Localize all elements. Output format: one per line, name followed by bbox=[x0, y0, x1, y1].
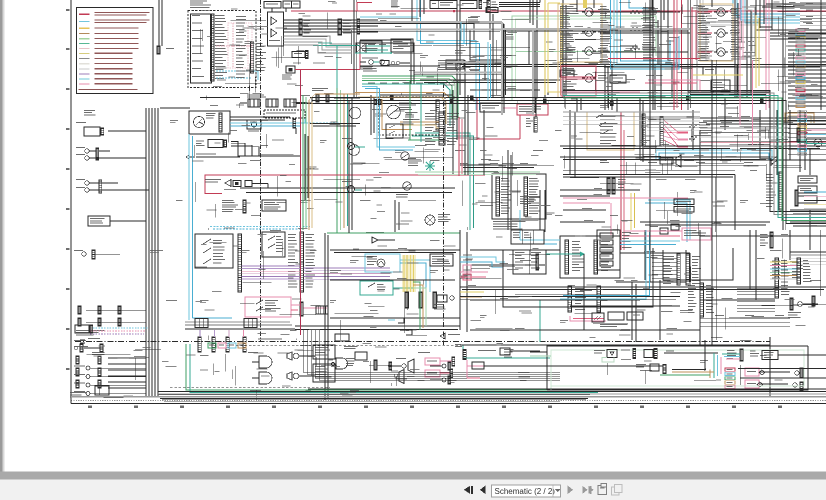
horn box H1 bbox=[446, 60, 464, 69]
left long verts bbox=[146, 108, 158, 397]
blower resistor R1 bbox=[630, 8, 658, 14]
harness divider line A bbox=[261, 0, 357, 341]
bl pink conn cluster bbox=[455, 344, 484, 378]
connector J4 strip bbox=[338, 19, 352, 35]
enclosure pale green inner bbox=[551, 350, 804, 390]
teal junction dot bbox=[355, 52, 392, 54]
red pair x674 bbox=[674, 0, 677, 110]
gauge G2 bbox=[349, 105, 401, 155]
red horiz y58 bbox=[608, 58, 700, 60]
fuse holder FH1 bbox=[362, 58, 410, 66]
sender labels bbox=[363, 66, 377, 71]
conn strip Y2 bbox=[419, 292, 422, 308]
switch box S3 bbox=[460, 1, 477, 9]
connector J8 strip bbox=[439, 112, 445, 145]
left margin component bbox=[76, 122, 146, 136]
wire loop green bbox=[327, 76, 458, 233]
tan vert pair x309 bbox=[309, 100, 312, 230]
wire horn bbox=[464, 64, 485, 80]
red vert x300 bbox=[300, 70, 302, 335]
wire loop tan bbox=[344, 81, 452, 229]
speaker SP1 bbox=[287, 352, 315, 360]
wire black pair y175 bbox=[563, 175, 735, 231]
tail lamp labels mid bbox=[504, 349, 513, 358]
JB1 caption below bbox=[493, 221, 526, 230]
dome switches bbox=[770, 156, 778, 165]
verticals 230-345 right bbox=[584, 230, 820, 345]
encl long horizontals bbox=[738, 365, 826, 385]
wires into x677 bbox=[652, 258, 677, 282]
wire cyan from key bbox=[230, 117, 305, 126]
fuse F1 bbox=[292, 51, 308, 59]
fusible link cluster bbox=[312, 88, 360, 102]
green vert pair x303 bbox=[303, 95, 306, 230]
bus pair y64 extend bbox=[618, 65, 737, 98]
wires from J6 right bbox=[499, 0, 540, 7]
fuel sender FS1 bbox=[205, 179, 252, 187]
connector stack right edge 2 bbox=[788, 111, 826, 156]
tan pair top gauge area bbox=[370, 96, 446, 98]
key switch connector bbox=[219, 113, 222, 132]
alternator gray wires bbox=[284, 36, 353, 47]
gauge labels mid bbox=[403, 119, 413, 125]
long horiz y287 bbox=[460, 287, 826, 290]
wire red vert x621 bbox=[621, 112, 624, 250]
radio box 2 bbox=[313, 364, 335, 382]
left cluster box bbox=[95, 386, 109, 395]
dome conn strip bbox=[766, 172, 782, 210]
wire pink dashed 2 bbox=[216, 23, 252, 68]
cyan pair x488 bbox=[488, 42, 491, 100]
scattered wire labels bbox=[150, 2, 826, 393]
enclosure big bottom bbox=[547, 346, 808, 390]
center mid labels bbox=[455, 150, 543, 169]
blower resistor R2 bbox=[630, 25, 653, 31]
black vert x712 extend bbox=[712, 60, 716, 345]
fuse box F2 bbox=[486, 8, 498, 13]
box P3 bbox=[88, 216, 110, 226]
relay box mid bbox=[513, 250, 546, 274]
red loop bottom seg bbox=[205, 193, 222, 195]
yellow horiz y75 bbox=[693, 74, 743, 76]
left margin mid connector bbox=[74, 250, 120, 259]
long horiz y306 bbox=[570, 305, 680, 307]
junction box JB2 bbox=[560, 236, 620, 278]
routing mesh vertical wires bbox=[272, 0, 821, 342]
JB1 text right bbox=[529, 178, 540, 214]
enclosure box E2 bbox=[663, 248, 733, 280]
JB1 caption bbox=[520, 196, 540, 204]
black pair y326 right bbox=[295, 326, 460, 330]
toolbar next arrow (disabled) bbox=[568, 485, 574, 494]
gauge G5 bbox=[814, 139, 822, 147]
gauge cluster connector bbox=[436, 100, 439, 130]
bus darken bbox=[296, 98, 826, 288]
wire cyan panel bbox=[216, 71, 258, 80]
wire loop light-green bbox=[341, 79, 456, 231]
blower resistor R3 bbox=[630, 44, 655, 50]
wire red relay loop bbox=[692, 7, 696, 90]
instrument panel inner box bbox=[191, 14, 212, 83]
wire pink vert x766 bbox=[766, 0, 769, 110]
horn D2b bbox=[394, 370, 404, 384]
wire yellow vert x631 bbox=[631, 193, 635, 230]
toolbar prev arrow bbox=[480, 485, 486, 494]
br small parts bbox=[793, 368, 803, 391]
wire pink horn bbox=[560, 91, 640, 93]
sender circles right bbox=[342, 138, 365, 193]
gray wires right lower bbox=[790, 255, 826, 265]
ammeter shunt A1 bbox=[282, 66, 295, 80]
panel extra text bbox=[236, 16, 247, 78]
wire pink fuel bbox=[624, 231, 682, 236]
wire black bottom right pair bbox=[463, 337, 770, 345]
harness outline pale green bbox=[512, 16, 656, 100]
ts bottom conn strips bbox=[198, 337, 246, 352]
instrument panel item labels bbox=[192, 15, 204, 77]
JB2 strip A bbox=[565, 240, 568, 274]
wiper connector bbox=[660, 117, 663, 146]
alternator staircase extra bbox=[284, 42, 353, 53]
conn strip TS-B bbox=[300, 232, 303, 292]
mid right verticals bbox=[770, 110, 810, 175]
solenoid Y1 bbox=[196, 140, 227, 148]
breaker CB1 bbox=[480, 103, 502, 112]
wire black vert x503 bbox=[503, 23, 506, 98]
wire teal lower right bbox=[539, 300, 541, 342]
main bus line 1 bbox=[310, 97, 770, 99]
encl label stack bbox=[725, 368, 735, 388]
wire teal long bbox=[313, 45, 360, 47]
wire cyan right mid bbox=[645, 200, 690, 242]
top right corner rows bbox=[800, 2, 826, 25]
turn signal switch box bbox=[587, 112, 634, 150]
left cluster rows2 bbox=[74, 366, 146, 396]
relay K7 bbox=[700, 48, 738, 56]
wire red top junction bbox=[453, 10, 455, 12]
trunk bends bbox=[529, 14, 530, 65]
gauge cluster dashed box bbox=[379, 97, 445, 135]
battery BAT1 group bbox=[248, 99, 296, 107]
battery labels bbox=[247, 95, 266, 98]
connector P1 pair bbox=[76, 147, 112, 160]
right bundle feed bbox=[563, 91, 640, 101]
encl colored verts bbox=[710, 353, 721, 378]
wire cyan left pair bbox=[189, 134, 193, 320]
mid horizontals extra bbox=[563, 160, 770, 170]
right edge conn mid bbox=[760, 232, 773, 248]
tss gray wires bbox=[647, 118, 700, 131]
wire tan to J8 bbox=[400, 122, 439, 128]
right edge stubs mid bbox=[804, 130, 826, 209]
labels right lower bbox=[792, 262, 803, 278]
conn strip R2 bbox=[775, 258, 790, 298]
connector J8 labels R bbox=[447, 113, 459, 145]
junction box JB1 bbox=[492, 174, 546, 219]
yellow entry relay1 bbox=[583, 0, 587, 8]
wire pink y203 bbox=[563, 203, 611, 235]
wire red loop fuel bbox=[205, 175, 485, 194]
wire green y233 bbox=[327, 232, 460, 234]
cyan pair x377 bbox=[362, 87, 415, 151]
lamp box B1 bbox=[264, 2, 281, 9]
fan motor M2 bbox=[425, 161, 435, 171]
inline conn small 1 bbox=[195, 319, 208, 328]
conn pair x677 bbox=[663, 254, 701, 285]
connector J1 wire labels bbox=[215, 15, 228, 79]
flasher sw box bbox=[262, 232, 285, 257]
bl labels bbox=[70, 392, 87, 398]
purple bundle left bbox=[242, 266, 301, 279]
left long vert feeds bbox=[110, 158, 149, 221]
green tan corners bbox=[413, 282, 426, 330]
wire teal arrow bbox=[546, 252, 585, 257]
label box LB1 bbox=[674, 199, 694, 205]
center top labels bbox=[455, 17, 514, 53]
starter M1 bbox=[247, 120, 261, 132]
cyan stub pair bbox=[461, 22, 464, 44]
small syms right of cab bbox=[388, 318, 412, 335]
wire cyan dashed headlight bbox=[210, 227, 310, 230]
hazard conn bbox=[300, 302, 303, 316]
gray trunk pair 2 bbox=[357, 29, 690, 115]
draft parts right bbox=[434, 295, 454, 310]
tan box gauge bbox=[382, 99, 412, 130]
fuel tank boxes bbox=[650, 224, 679, 234]
hazard cluster pink box bbox=[245, 297, 291, 317]
bl cluster rows bbox=[76, 356, 101, 388]
bl wires to bus bbox=[108, 358, 146, 388]
wire red cb bbox=[476, 98, 478, 141]
svg-text:Schematic (2 / 2): Schematic (2 / 2) bbox=[495, 487, 556, 496]
wiper motor fan wires bbox=[664, 120, 689, 147]
wire teal vert x337 bbox=[336, 46, 338, 89]
wire teal to J8 bbox=[412, 133, 439, 136]
lamp box B2 bbox=[283, 1, 300, 8]
vert x770 extend bbox=[769, 337, 771, 397]
toolbar first-page button bbox=[464, 486, 470, 494]
connector J3 strip bbox=[299, 19, 311, 35]
relay area boxes bbox=[558, 4, 733, 62]
horn relay K4 bbox=[566, 74, 608, 82]
track pump label bbox=[84, 110, 96, 115]
cyan vert pair x646 bbox=[560, 230, 650, 299]
bus pair y90 bbox=[563, 91, 770, 94]
toolbar last-page button (disabled) bbox=[583, 486, 588, 494]
wire pink y108 bbox=[502, 107, 517, 109]
wire green loop bottom bbox=[415, 172, 540, 175]
bus bottom lines bbox=[155, 397, 590, 399]
conn strip R1 bbox=[688, 283, 714, 317]
labels v3 bbox=[563, 4, 801, 104]
wire teal label bbox=[318, 43, 332, 44]
wire gray long y188 bbox=[240, 187, 360, 189]
wire teal L down bbox=[446, 133, 474, 230]
bus junction dots bbox=[453, 97, 689, 105]
wire y366 long bbox=[484, 365, 663, 367]
small conn pair x376 bbox=[374, 100, 381, 105]
label box LB2 bbox=[674, 207, 694, 213]
TS-B labels bbox=[288, 234, 315, 288]
left small symbols 335 bbox=[74, 338, 100, 347]
gray wire grid right mid bbox=[700, 126, 790, 146]
connector J1 strip bbox=[211, 14, 214, 81]
encl junction bundle bbox=[704, 340, 706, 371]
speaker D2 bbox=[252, 372, 272, 384]
tiny colored boxes row bbox=[208, 343, 246, 348]
green branch down bbox=[410, 81, 421, 143]
battery cables bbox=[240, 98, 312, 104]
sender symbols bbox=[360, 60, 384, 65]
connector J9 bbox=[526, 117, 537, 132]
encl wires to conn bbox=[722, 354, 740, 359]
bottom rows full bbox=[71, 389, 826, 401]
fuel tank pink box bbox=[682, 228, 711, 240]
fan motor M4 bbox=[425, 214, 451, 225]
right lower extra bbox=[700, 315, 790, 326]
wire dkgray vert x688 bbox=[688, 0, 691, 110]
encl boxes right bbox=[762, 351, 826, 360]
bus bottom extra bbox=[158, 395, 590, 402]
gauge G3 bbox=[401, 152, 409, 160]
headlight switch box bbox=[262, 200, 286, 211]
fuse holder labels bbox=[360, 67, 373, 70]
right relay tan box bbox=[700, 4, 733, 61]
wire cyan relay out bbox=[400, 260, 430, 292]
purple bundle right bbox=[304, 268, 391, 279]
key switch labels bbox=[206, 113, 216, 118]
key switch symbol bbox=[194, 117, 205, 128]
cyan box around resistors bbox=[611, 0, 680, 69]
pink vert x740 bbox=[740, 0, 743, 125]
enclosure box E1 bbox=[503, 248, 653, 307]
bl connector a bbox=[74, 340, 100, 352]
conn strip JB2-b bbox=[568, 286, 600, 312]
wire cyan blower bbox=[617, 0, 672, 64]
conn strip TS-A bbox=[238, 234, 241, 292]
switch cluster below gauge bbox=[386, 112, 419, 138]
wheat verticals bbox=[558, 4, 561, 97]
wires right mid bbox=[737, 288, 775, 312]
wire sender out bbox=[252, 184, 268, 189]
switch box S2 bbox=[430, 1, 457, 9]
switch panel pink cluster bbox=[570, 312, 643, 327]
top boxes row 230 bbox=[511, 230, 544, 244]
top right black hooks bbox=[756, 0, 772, 30]
right colored bundle 262-278 bbox=[770, 261, 797, 280]
conn strip Y1 bbox=[405, 292, 408, 308]
pink boxes br bbox=[745, 368, 790, 388]
wire cyan stub bbox=[360, 16, 417, 18]
gauge cluster labels bbox=[399, 100, 417, 110]
relay K10 box bbox=[391, 39, 413, 52]
component D3 bbox=[331, 358, 355, 369]
pink cluster wires bbox=[418, 352, 455, 378]
bl connector syms bbox=[430, 362, 451, 384]
connector J8 labels L bbox=[425, 113, 437, 145]
inline conn boxes bbox=[316, 306, 328, 314]
wire red wiper bbox=[700, 141, 826, 143]
pink vert x752 bbox=[752, 60, 754, 145]
top band extra wires bbox=[577, 0, 712, 12]
encl conn strip bbox=[727, 349, 759, 361]
long horiz y296 pair bbox=[460, 297, 680, 300]
left lower cluster bbox=[76, 306, 121, 335]
wire gray bundle right bbox=[700, 0, 760, 25]
connector J5 bbox=[479, 1, 489, 9]
main bus line 3 bbox=[296, 103, 766, 105]
wire cyan gear bbox=[620, 241, 680, 245]
viewer toolbar background bbox=[0, 472, 826, 480]
radio box bbox=[313, 345, 335, 359]
bl connector b bbox=[92, 344, 105, 355]
flasher box FL1 bbox=[517, 104, 548, 115]
left vert bundle join bbox=[146, 108, 330, 396]
wire red to keyswitch bbox=[295, 69, 360, 71]
left dashed colored bundle bbox=[75, 325, 148, 334]
wire tan loop right bbox=[785, 113, 814, 123]
descending bundle x305 bbox=[303, 330, 560, 380]
left colored bundle 255-300 bbox=[460, 255, 505, 298]
gray trunk pair 1 bbox=[357, 22, 504, 115]
yellow bundle verts bbox=[404, 255, 414, 292]
routing mesh horizontal wires bbox=[160, 4, 826, 345]
wire black vert x412 bbox=[411, 0, 413, 23]
neutral sw X symbol bbox=[356, 43, 390, 53]
trunk end connectors bbox=[357, 19, 360, 34]
harness divider line C (horizontal) bbox=[75, 339, 770, 342]
wire teal long bottom bbox=[463, 345, 550, 358]
horn relay red box 2 bbox=[561, 79, 596, 96]
dashed wire y345 bbox=[236, 345, 458, 347]
wire cyan dashed right bbox=[299, 122, 339, 124]
bus junction blobs bbox=[390, 96, 763, 107]
wire cyan blower 2 bbox=[621, 0, 671, 61]
encl tan green wires bbox=[660, 372, 714, 375]
texture wires bbox=[87, 1, 826, 400]
wiper motor M3 bbox=[689, 122, 712, 140]
encl tail lamp conn bbox=[621, 349, 718, 359]
right bundle loop bbox=[640, 91, 826, 224]
enclosure inner hints bbox=[510, 290, 640, 300]
main bus line 2 bbox=[312, 100, 768, 102]
wire red relay feeds bbox=[697, 12, 712, 52]
yellow wires left relay bbox=[545, 0, 560, 95]
connector stack right edge bbox=[788, 29, 826, 108]
wire battery feed red bbox=[291, 10, 826, 12]
instrument panel dashed box bbox=[188, 11, 256, 88]
cig lighter bbox=[344, 346, 367, 360]
harness outline pale green 2 bbox=[516, 19, 654, 98]
wire pink dashed 1 bbox=[228, 23, 252, 68]
pink horiz y198 bbox=[563, 197, 688, 199]
yellow fill block bbox=[402, 255, 416, 292]
gray wire rows bbox=[185, 322, 295, 329]
far right bottom parts bbox=[788, 296, 818, 318]
diode D1 bbox=[366, 232, 395, 243]
pink boxes mid bbox=[463, 265, 490, 280]
encl row2 bbox=[636, 364, 705, 374]
wire cyan JB2 bbox=[520, 210, 560, 244]
loop labels cluster bbox=[368, 60, 459, 84]
relay K1 bbox=[566, 8, 609, 16]
wire loop teal bbox=[348, 84, 451, 226]
key switch S1 box bbox=[189, 111, 230, 134]
relay K3 bbox=[566, 47, 610, 55]
flasher box FL4 bbox=[711, 80, 730, 91]
flasher box FL3 bbox=[703, 67, 716, 75]
red pair x459 bbox=[459, 117, 462, 176]
